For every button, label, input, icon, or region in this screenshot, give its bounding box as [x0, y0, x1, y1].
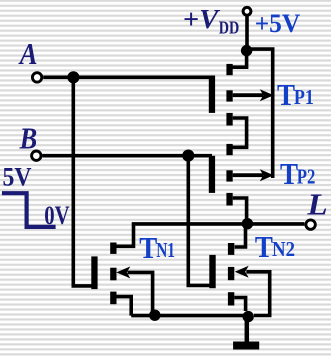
supply terminal VDD — [243, 7, 251, 15]
input label A — [18, 36, 38, 71]
ground — [233, 342, 259, 350]
svg-text:T: T — [139, 230, 157, 265]
svg-text:+5V: +5V — [255, 8, 301, 38]
svg-text:P2: P2 — [297, 164, 316, 188]
svg-text:T: T — [255, 229, 273, 264]
transistor TN1 source tick — [110, 292, 116, 305]
wire TP1 drain to VDD node — [229, 51, 247, 68]
node A junction dot — [67, 71, 79, 83]
svg-text:T: T — [277, 77, 295, 112]
input label B — [19, 121, 37, 156]
transistor TP2 gate bar — [209, 156, 215, 193]
transistor TP1 source tick — [226, 113, 232, 126]
svg-text:DD: DD — [219, 17, 240, 37]
wire TP2 source to output node — [233, 198, 247, 224]
transistor TN2 source tick — [228, 292, 234, 305]
output label L — [306, 186, 327, 221]
transistor TP1 bulk tick — [226, 90, 232, 101]
wire TN2 source down — [234, 298, 245, 312]
label 5V — [3, 162, 32, 192]
node B junction dot — [182, 150, 194, 162]
wire TN1 source down — [117, 297, 132, 316]
transistor TP2 bulk tick — [226, 170, 232, 181]
transistor TP1 drain tick — [226, 64, 232, 75]
wire VDD terminal down — [245, 17, 249, 51]
transistor TP1 bulk arrow to rail — [233, 89, 274, 101]
svg-text:A: A — [18, 36, 38, 71]
node VDD junction dot — [241, 45, 252, 56]
wire node A down to TN1 gate — [73, 77, 92, 286]
transistor TN1 drain tick — [110, 243, 116, 254]
wire ground stub — [245, 317, 250, 342]
label TN2 — [255, 229, 295, 264]
transistor TN2 drain tick — [228, 243, 234, 255]
node ground junction dot — [243, 311, 254, 322]
transistor TP2 drain tick — [226, 144, 232, 155]
svg-text:P1: P1 — [294, 85, 314, 109]
label TP1 — [277, 77, 314, 112]
label TN1 — [139, 230, 175, 265]
wire ground bus — [131, 314, 248, 318]
transistor TP2 bulk arrow to rail — [233, 169, 274, 181]
transistor TN2 bulk tick — [228, 267, 234, 280]
transistor TN1 gate bar — [91, 256, 97, 289]
svg-text:0V: 0V — [44, 201, 70, 230]
svg-text:+V: +V — [183, 3, 221, 34]
node output junction dot — [242, 218, 253, 229]
transistor TN1 bulk tick — [110, 268, 116, 281]
transistor TP1 gate bar — [209, 76, 215, 113]
wire output node to TN1 drain — [117, 224, 248, 246]
svg-text:N2: N2 — [272, 237, 295, 261]
wire output node to terminal L — [247, 222, 304, 226]
input terminal B — [32, 151, 41, 160]
svg-text:5V: 5V — [3, 162, 32, 192]
label TP2 — [280, 156, 315, 191]
wire TP1 source to TP2 drain — [229, 118, 247, 147]
label 0V — [44, 201, 70, 230]
wire input B to TP2 gate — [42, 154, 212, 158]
waveform step 5V to 0V — [2, 193, 56, 227]
transistor TP2 source tick — [226, 193, 232, 206]
transistor TN2 gate bar — [209, 255, 215, 288]
svg-text:L: L — [306, 186, 327, 221]
input terminal A — [32, 73, 41, 82]
node TN1 source junction dot — [149, 310, 160, 321]
supply label +5V — [255, 8, 301, 38]
supply label +VDD — [183, 3, 239, 37]
wire VDD to bulk rail — [247, 49, 273, 178]
wire output node to TN2 drain — [235, 225, 246, 247]
wire node B down to TN2 gate — [188, 156, 210, 286]
svg-text:N1: N1 — [156, 238, 175, 262]
output terminal L — [306, 220, 315, 229]
wire input A to TP1 gate — [43, 76, 212, 80]
transistor TN1 bulk arrow and tie to source node — [116, 266, 152, 314]
transistor TN2 bulk arrow and tie to source node — [235, 266, 270, 316]
svg-text:T: T — [280, 156, 298, 191]
